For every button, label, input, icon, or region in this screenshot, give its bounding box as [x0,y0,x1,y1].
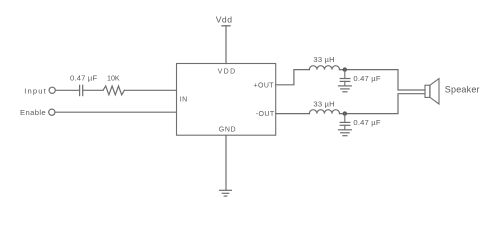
svg-text:0.47 µF: 0.47 µF [353,118,380,127]
speaker SP1 driver [425,85,430,97]
wire U1 +OUT step up to L1 [276,70,310,85]
inductor L2 [309,110,339,114]
node dot (L1/C2) [343,67,347,71]
wire L1 to speaker top [340,70,426,90]
inductor L1 [309,66,339,70]
svg-text:GND: GND [219,126,236,133]
IC U1 [177,64,276,136]
svg-text:33 µH: 33 µH [313,100,334,109]
wire R1 to U1 pin IN [124,89,176,91]
svg-text:IN: IN [180,97,188,104]
enable terminal [49,109,55,115]
svg-text:Enable: Enable [20,108,46,117]
resistor R1 [103,86,124,95]
node dot (L2/C3) [343,111,347,115]
Vdd rail bar [222,25,230,27]
svg-text:-OUT: -OUT [256,111,275,118]
svg-text:0.47 µF: 0.47 µF [353,74,380,83]
svg-text:Vdd: Vdd [216,15,233,25]
svg-text:Speaker: Speaker [445,84,480,94]
wire U1 GND to ground [225,135,227,190]
wire C1 to R1 [83,89,103,91]
wire input terminal to C1 [56,89,79,91]
svg-text:+OUT: +OUT [254,82,275,89]
ground (main) [220,190,232,196]
svg-text:33 µH: 33 µH [313,55,334,64]
svg-text:VDD: VDD [218,69,237,76]
svg-text:Input: Input [24,86,47,95]
wire enable terminal to U1 [55,111,176,113]
input terminal [49,87,55,93]
wire Vdd to U1 [225,26,227,64]
capacitor C2 [340,70,350,82]
capacitor C1 [80,85,83,95]
svg-text:10K: 10K [107,74,120,82]
svg-text:0.47 µF: 0.47 µF [70,73,97,82]
ground (C3) [339,125,352,135]
capacitor C3 [340,114,350,126]
speaker SP1 cone [430,79,439,104]
ground (C2) [339,81,352,91]
wire L2 to speaker bottom [340,94,426,114]
wire U1 -OUT to L2 [276,113,310,115]
